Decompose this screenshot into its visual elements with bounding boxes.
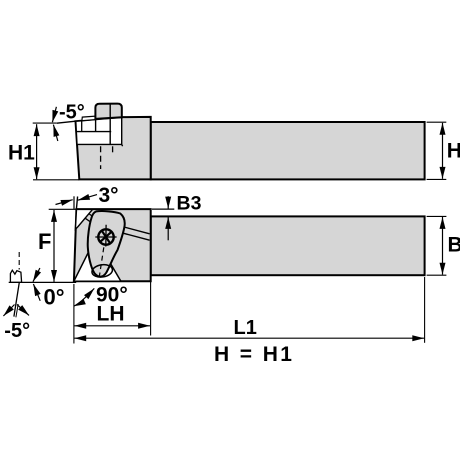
screw crosshair vertical (105, 225, 107, 247)
svg-text:H1: H1 (8, 142, 35, 165)
screw cross X line 2 (101, 230, 110, 244)
B bottom extension line (427, 274, 447, 276)
L1 right extension line (424, 277, 426, 343)
clamp oval (88, 211, 125, 277)
3 deg vertical extension line (73, 196, 75, 209)
glyph tilted axis line (14, 282, 19, 316)
pocket step line horizontal (76, 131, 111, 133)
pocket line vertical a (95, 120, 97, 132)
bottom reference line (tip level) (9, 281, 77, 283)
insert triangle (white) (74, 238, 121, 281)
3 deg right leader arrow (78, 195, 97, 201)
svg-text:-5°: -5° (4, 320, 30, 342)
-5 deg upper leader arrow (52, 107, 56, 122)
centerline dashed short (112, 146, 114, 155)
B3 extension line (152, 208, 174, 210)
H1 bottom extension line (33, 179, 79, 181)
clamp band left stub upper (89, 214, 94, 218)
svg-text:B: B (448, 234, 460, 257)
lower view shank (151, 216, 425, 275)
top view shank (151, 122, 425, 179)
LH dimension line with arrows (74, 325, 150, 327)
screw cross X line 1 (100, 231, 112, 242)
screw crosshair horizontal (95, 236, 116, 238)
insert sliver on top edge (82, 116, 96, 121)
clamp dome divider (109, 104, 111, 119)
0 deg upper arrow (33, 268, 40, 282)
H1 top extension line (33, 122, 57, 124)
glyph axis second line (16, 304, 18, 317)
LH right extension line (150, 281, 152, 335)
H dimension line with arrows (442, 123, 444, 179)
svg-text:LH: LH (97, 303, 125, 326)
clamp band right upper line (124, 227, 150, 234)
lower view head body (74, 209, 151, 281)
svg-text:3°: 3° (99, 184, 119, 207)
top view sloped edge extension (57, 121, 76, 123)
glyph dashed centerline (18, 252, 20, 270)
0 deg lower arrow (33, 284, 40, 301)
H top extension line (427, 121, 447, 123)
3 deg left leader arrow (56, 200, 73, 205)
-5 deg lower leader arrow (53, 125, 57, 141)
90 deg arc with arrows (74, 288, 95, 306)
head top-left white triangle (75, 209, 92, 229)
insert cross-section glyph (10, 270, 21, 282)
H bottom extension line (427, 178, 447, 180)
LH left extension line (73, 284, 75, 344)
svg-text:B3: B3 (177, 193, 202, 215)
B3 bottom leader arrow (167, 217, 169, 240)
clamp centerline dashed (99, 247, 104, 281)
clamp dome (95, 104, 121, 119)
F top extension line (49, 208, 76, 210)
clamp band left stub lower (85, 218, 92, 223)
svg-text:H: H (447, 140, 460, 163)
svg-text:0°: 0° (44, 285, 65, 310)
-5 deg bottom right arrow (17, 305, 29, 316)
pocket line vertical b (109, 118, 111, 144)
B3 top leader arrow (167, 196, 169, 208)
svg-text:-5°: -5° (59, 102, 85, 124)
centerline dashed long (100, 146, 102, 169)
pocket bottom hook (121, 144, 124, 146)
screw circle (98, 229, 113, 244)
pocket line vertical left (81, 121, 83, 132)
clamp band right lower line (123, 233, 149, 240)
svg-text:L1: L1 (234, 317, 257, 339)
clamp tip ellipse (91, 263, 113, 278)
svg-text:H = H1: H = H1 (214, 343, 294, 366)
top view insert pocket (white) (76, 117, 122, 144)
top view head body (76, 117, 151, 179)
-5 deg bottom left arrow (3, 305, 14, 317)
B dimension line with arrows (442, 217, 444, 275)
F dimension line with arrows (53, 210, 55, 282)
L1 dimension line with arrows (74, 337, 424, 339)
svg-text:F: F (38, 229, 51, 254)
3 deg tilted edge extension (76, 197, 77, 210)
B top extension line (427, 215, 447, 217)
H1 dimension line with arrows (36, 124, 38, 179)
